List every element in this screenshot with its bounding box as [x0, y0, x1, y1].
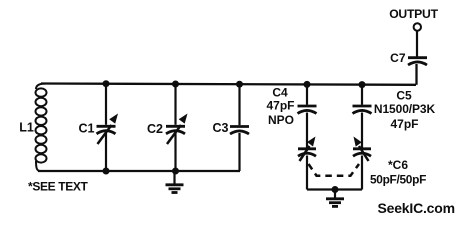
inductor L1: [36, 84, 47, 172]
gang line C6 (dashed): [309, 164, 360, 176]
label C6: [370, 158, 426, 187]
svg-text:*SEE TEXT: *SEE TEXT: [28, 180, 89, 194]
junction dot C2 bottom: [172, 168, 179, 175]
wire output riser: [415, 64, 417, 85]
capacitor C6a (variable, ganged): [298, 137, 316, 190]
svg-text:NPO: NPO: [268, 113, 294, 127]
wire bottom right: [307, 188, 362, 190]
capacitor C1 (variable): [97, 84, 119, 172]
junction dot C2 top: [172, 81, 179, 88]
capacitor C3: [230, 84, 249, 172]
svg-text:C1: C1: [79, 122, 95, 136]
capacitor C7: [408, 31, 427, 65]
junction dot C5 top: [359, 81, 366, 88]
ground (C6 branch): [326, 190, 344, 207]
label C5: [374, 89, 436, 132]
svg-text:OUTPUT: OUTPUT: [389, 7, 438, 21]
output terminal: [414, 23, 421, 30]
svg-text:50pF/50pF: 50pF/50pF: [370, 173, 426, 187]
junction dot ground C6: [332, 186, 339, 193]
svg-text:C7: C7: [390, 51, 406, 65]
ground (C2 branch): [166, 171, 184, 193]
svg-text:47pF: 47pF: [390, 117, 418, 131]
junction dot C1 bottom: [103, 168, 110, 175]
label C4: [266, 86, 294, 128]
svg-text:C5: C5: [396, 89, 412, 103]
svg-text:C4: C4: [272, 86, 288, 100]
capacitor C5: [353, 85, 372, 149]
svg-text:47pF: 47pF: [266, 99, 294, 113]
junction dot C4 top: [304, 81, 311, 88]
capacitor C6b (variable, ganged): [353, 137, 371, 190]
junction dot C1 top: [103, 80, 110, 87]
svg-text:*C6: *C6: [388, 158, 408, 172]
junction dot C3 top: [236, 81, 243, 88]
wire bottom bus: [38, 170, 240, 172]
capacitor C4: [298, 85, 317, 149]
svg-text:L1: L1: [19, 121, 34, 135]
svg-text:N1500/P3K: N1500/P3K: [374, 102, 436, 116]
svg-text:C2: C2: [147, 122, 163, 136]
capacitor C2 (variable): [166, 84, 188, 172]
wire top bus: [41, 84, 416, 85]
svg-text:SeekIC.com: SeekIC.com: [378, 200, 455, 216]
svg-text:C3: C3: [213, 121, 229, 135]
